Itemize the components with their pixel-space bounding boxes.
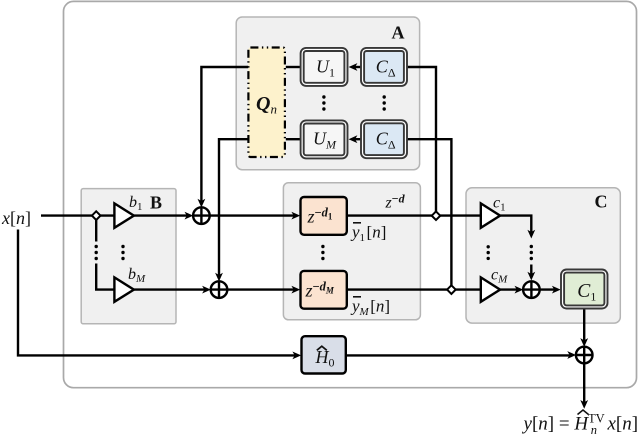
ARROWHEADS (185, 63, 589, 409)
block Qn (248, 48, 285, 158)
panel C (466, 188, 620, 323)
wire Cdelta1 to U1 (353, 66, 361, 68)
arrow c1 corner down (527, 230, 535, 239)
wire Qn to U1 (286, 66, 301, 68)
block UM (301, 120, 348, 158)
summer sum4 (576, 347, 593, 364)
wire sum4 output down (583, 363, 585, 403)
junction diamond row2 tap (447, 285, 456, 294)
dots C panel sum column (530, 245, 533, 248)
svg-text:C: C (595, 192, 608, 212)
summer sum3 (523, 281, 540, 298)
arrow into sum4 from H0 (567, 351, 576, 359)
SUM NODES (193, 207, 592, 363)
dots A Cdelta column (383, 95, 386, 98)
block Cdelta1 (361, 48, 407, 86)
arrow into C1 box (552, 286, 561, 294)
wire sum3 to C1 (540, 288, 556, 290)
dots C panel left (487, 245, 490, 248)
dots B middle (121, 245, 124, 248)
svg-text:yM[n]: yM[n] (350, 297, 390, 319)
wire bM to sum2 (134, 288, 206, 290)
arrow output y[n] (580, 400, 588, 409)
summer sum2 (211, 281, 228, 298)
junction diamond at x[n] split (92, 211, 101, 220)
label output equation (522, 410, 639, 437)
panel A (236, 17, 419, 170)
label H0 (315, 346, 335, 369)
block U1 (301, 48, 348, 86)
block C1 (561, 270, 608, 309)
label ybarM (350, 297, 390, 319)
wire feedback right row1 to Cdelta1 (407, 67, 436, 212)
svg-text:x[n]: x[n] (1, 208, 31, 228)
dots B branch (95, 245, 98, 248)
summer sum1 (193, 207, 210, 224)
block z-dM (301, 271, 347, 309)
gain cM (481, 277, 500, 301)
panel z-d (283, 183, 420, 320)
arrow into UM (349, 135, 358, 143)
GAIN TRIANGLES (114, 203, 500, 301)
wire Qn row2 out to sum2 (219, 139, 248, 276)
wire branch to bM lower segment (96, 264, 114, 290)
svg-text:B: B (150, 193, 162, 213)
VERTICAL DOTS (95, 95, 534, 260)
outer system frame (64, 1, 637, 387)
wire dots to sum3 (530, 265, 532, 276)
arrow into sum1 (185, 212, 194, 220)
arrow into z1 (291, 212, 300, 220)
panel B (81, 189, 176, 324)
gain b1 (114, 203, 133, 227)
wire x[n] branch to H0 (18, 230, 297, 356)
svg-text:y[n] = HTVnx[n]: y[n] = HTVnx[n] (522, 412, 639, 437)
dots z panel (321, 245, 324, 248)
label ybar1 (350, 223, 386, 245)
wire C1 down to sum4 (583, 309, 585, 342)
arrow into sum1 from top (198, 199, 206, 208)
block Cdelta2 (361, 120, 407, 158)
wire cM to sum3 (500, 288, 518, 290)
wire branch to bM upper segment (95, 216, 97, 242)
JUNCTION DIAMONDS (92, 211, 456, 294)
block z-d1 (301, 197, 347, 235)
wire H0 to sum4 (346, 354, 571, 356)
svg-text:y1[n]: y1[n] (350, 223, 386, 245)
block H0 (302, 336, 346, 373)
wire Qn to UM (286, 138, 301, 140)
wire z1 to c1 (347, 214, 481, 216)
arrow into sum4 from C1 (580, 338, 588, 347)
wire Cdelta2 to UM (353, 138, 361, 140)
wire z2 to cM (347, 288, 481, 290)
arrow into sum3 from cM (515, 286, 524, 294)
wire x[n] to b1 input (41, 214, 114, 216)
wire b1 to sum1 (134, 214, 189, 216)
arrow dots into sum3 (527, 272, 535, 281)
gain c1 (481, 203, 500, 227)
gain bM (114, 277, 133, 301)
wire feedback right row2 to Cdelta2 (407, 139, 451, 285)
wire sum1 to z1 (210, 214, 296, 216)
arrow into sum2 from top (215, 273, 223, 282)
arrow into U1 (349, 63, 358, 71)
svg-text:A: A (392, 23, 405, 43)
arrow into z2 (291, 286, 300, 294)
wire sum2 to z2 (227, 288, 295, 290)
arrow into sum2 (202, 286, 211, 294)
dots A U column (322, 95, 325, 98)
junction diamond row1 tap (432, 211, 441, 220)
wire c1 corner down (500, 216, 531, 234)
wire Qn row1 out to sum1 (201, 67, 248, 203)
arrow into H0 (292, 352, 301, 360)
